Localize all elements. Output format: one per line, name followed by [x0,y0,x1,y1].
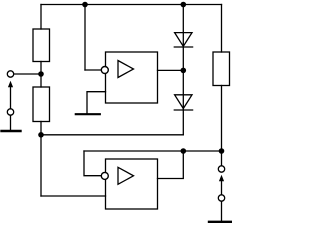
wire R1 bottom to R2 top [40,62,42,88]
wire output net horizontal [84,150,222,152]
output terminal circle lower [218,195,224,201]
wire lower output terminal to ground [221,201,223,221]
wire right rail top to R3 [221,5,223,53]
node top rail tap to U1 [82,2,88,8]
wire to op-amp U2 non-inverting input [41,195,106,197]
wire top supply rail [41,4,222,6]
input terminal circle upper [7,71,13,77]
wire top rail down to U1 inverting input [84,5,86,71]
diode D1 [174,33,192,47]
op-amp U1 [106,52,158,103]
wire R3 bottom to output net [221,86,223,152]
ground output port [209,221,231,223]
output terminal circle upper [218,166,224,172]
node top rail tap to diodes [181,2,187,8]
ground U1 input [76,113,100,115]
node input junction [38,71,44,77]
ground input port [2,130,21,132]
input terminal circle lower [7,109,13,115]
wire R2 bottom down left branch [40,122,42,197]
wire input terminal to junction [14,73,41,75]
node divider junction [38,132,44,138]
wire U2 output riser [158,151,184,179]
input voltage arrow [8,81,13,109]
op-amp U2 inverting input bubble [101,172,108,179]
node diode chain tap [181,68,187,74]
wire feedback down to U2 bubble [84,151,102,176]
op-amp U1 inverting input bubble [101,67,108,74]
wire lower input terminal to ground [10,115,12,130]
resistor R1 [33,29,50,62]
diode D2 [174,95,192,110]
wire into U1 bubble [85,69,102,71]
node output net right tap [219,148,225,154]
node output net left tap [181,148,187,154]
wire U1 output to diode junction [158,69,184,71]
wire junction to diode chain bottom [41,134,183,136]
wire from top rail down to R1 [40,5,42,30]
wire D1 cathode to D2 anode [182,47,184,110]
resistor R3 [213,52,230,86]
wire top rail to D1 anode [182,5,184,48]
output voltage arrow [219,175,224,195]
resistor R2 [33,87,50,122]
op-amp U2 [106,159,158,209]
wire output net to terminal [221,151,223,166]
wire U1 non-inverting input [87,92,106,114]
wire diode chain bottom riser [182,110,184,135]
